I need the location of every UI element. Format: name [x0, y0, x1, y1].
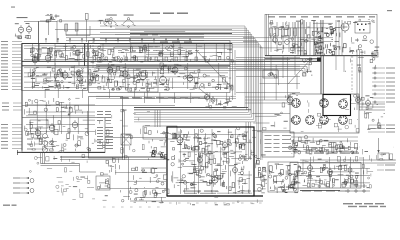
wire: B+ bus (dark): [22, 60, 321, 62]
parts list table rows (lower): [97, 127, 103, 128]
component cluster: first IF amp parts: [30, 67, 61, 90]
block outline: power supply chassis box: [290, 163, 361, 189]
tube V10: [122, 69, 128, 79]
wire with arrow: [378, 138, 380, 152]
tube V26: [212, 175, 218, 185]
component cluster: lower-left audio parts: [56, 176, 95, 200]
block outline: RF coil box: [55, 51, 79, 67]
wire crossers through gutter: [45, 89, 147, 98]
tube V11: [140, 71, 147, 82]
block outline: RF amplifier stage box: [22, 44, 88, 91]
wire drops in top band: [33, 44, 225, 61]
label: page number: [3, 205, 10, 206]
wire runs bottom center: [100, 168, 166, 197]
tube V22: [72, 120, 78, 130]
wire: [55, 46, 160, 48]
wire (dark): [60, 156, 167, 158]
component cluster: below converter box: [206, 96, 237, 108]
wire: top bus: [57, 20, 160, 22]
wire staircase bundle into vertical bus: [100, 26, 262, 160]
block outline: audio output box: [22, 118, 105, 153]
component cluster: terminal strip: [364, 111, 385, 130]
wire: [48, 21, 50, 35]
block outline: audio output module (heavy border): [167, 127, 254, 196]
tube V16: [211, 96, 215, 104]
component cluster: RF box interior extra: [28, 71, 86, 88]
tube V27: [233, 166, 238, 175]
wire: [80, 171, 97, 173]
wire runs in main field: [24, 68, 228, 88]
pin labels: left margin connector P2: [2, 103, 22, 104]
terminal stubs on AVC bus: [45, 38, 190, 42]
wire: [22, 105, 175, 107]
wire: [17, 150, 19, 155]
component cluster: S-meter circuit: [201, 74, 234, 90]
component cluster: module dense extra: [172, 132, 250, 192]
tube V9: [107, 65, 113, 75]
block outline: oscillator/BFO unit: [265, 14, 377, 55]
label row below upper bus: [140, 34, 148, 35]
wire drops mid-right web: [265, 57, 297, 100]
tube V14: [187, 73, 193, 83]
component cluster: vertical bus taps lower: [235, 127, 266, 161]
component cluster: under-chassis parts: [288, 136, 360, 155]
wire: [24, 20, 57, 22]
jack J2 contact: [43, 148, 48, 153]
wire bracket: [66, 35, 90, 37]
component cluster: antenna relay parts: [354, 94, 379, 110]
component cluster: audio takeoff: [100, 157, 119, 175]
component cluster: audio output stage: [24, 98, 82, 115]
component cluster: switch wiring: [148, 139, 169, 160]
labels under module: [183, 191, 201, 192]
wire bus down: [40, 152, 42, 163]
transformer T1 windings (dark verticals): [301, 20, 324, 56]
connector pin symbols: [374, 67, 376, 103]
tube V28: [308, 164, 313, 173]
component cluster: right lower corner parts: [359, 147, 394, 160]
tube V12: [160, 75, 167, 86]
crystal Y1 terminals: [357, 24, 367, 31]
wire drops in main field: [33, 63, 219, 89]
wire (dark vertical): [84, 43, 86, 66]
resistor R6: [27, 36, 31, 39]
wire: filament bus (dark): [22, 65, 230, 67]
terminal rows: rear panel connections: [13, 178, 28, 179]
label Y2: [106, 15, 117, 16]
tube V29: [328, 168, 333, 177]
wire: [234, 50, 236, 95]
tube socket X4: [292, 116, 301, 125]
wire: [40, 20, 49, 22]
block outline: power supply filter: [268, 162, 298, 192]
component cluster: module parts middle: [171, 150, 248, 170]
tube V13: [172, 65, 178, 75]
wire: [105, 137, 167, 139]
tube socket X6: [320, 116, 329, 125]
wires into audio area: [154, 110, 156, 127]
wire drops power section: [303, 157, 363, 188]
wire runs across top box: [66, 31, 204, 40]
tube V20: [35, 128, 41, 138]
tube V24: [198, 156, 203, 165]
wire (diagonal): [196, 50, 232, 88]
capacitor C10 (trimmer): [273, 38, 278, 43]
tube V18: [356, 96, 361, 105]
wire drops below oscillator box: [271, 56, 344, 78]
component cluster: power top strip: [303, 156, 358, 162]
resistor R2 (vertical): [65, 24, 68, 31]
capacitor C30 (dark block): [317, 58, 321, 62]
node mark top right corner: [387, 10, 392, 11]
fuse F1 and pilot lamps: [345, 190, 370, 192]
block outline: crystal filter: [355, 22, 370, 34]
resistor R5: [18, 36, 22, 39]
wire (dashed vertical shield): [92, 38, 94, 70]
tube V23: [177, 135, 183, 145]
tube V17: [287, 95, 293, 105]
label Y3: [124, 15, 134, 16]
component cluster: V1 V2 cathode parts: [15, 34, 29, 38]
label: drawing number line 1: [343, 203, 353, 204]
wire drops audio output: [30, 102, 87, 134]
label: band switch legend: [150, 13, 160, 14]
labels right of module bottom: [241, 191, 251, 192]
wire bus horizontal: [41, 163, 80, 165]
component cluster: oscillator top row parts: [270, 19, 375, 25]
wire (dark): [300, 190, 340, 192]
component cluster: module parts upper: [170, 129, 250, 150]
wire: nested box ends: [96, 65, 309, 77]
label row above IF bundle: [120, 97, 128, 98]
tube V5: [32, 55, 38, 65]
wire: [359, 103, 385, 105]
component cluster: sidetone parts: [130, 167, 147, 200]
component cluster: coil L1: [98, 19, 112, 24]
capacitor C12 (trimmer): [294, 44, 298, 48]
wire: box bottom (dark): [265, 55, 377, 57]
wire: [300, 159, 396, 161]
small box: fuse holder: [378, 153, 389, 160]
tube V7: [62, 70, 68, 80]
wire: AVC bus (dark): [22, 42, 232, 44]
wire runs in oscillator box: [243, 23, 333, 48]
component cluster: audio preamp parts: [102, 64, 130, 90]
component cluster: power section lower: [305, 179, 356, 188]
jack J2 contact: [43, 134, 48, 139]
label: drawing number line 2: [348, 206, 357, 207]
component cluster: left-lower extra: [24, 125, 56, 150]
wire: [335, 20, 337, 55]
relay K1 (box with cross): [121, 134, 131, 145]
label V1: [15, 23, 19, 24]
component cluster: under chassis dense: [294, 141, 358, 154]
block outline: voltage chart table: [262, 132, 294, 157]
wire runs in module: [171, 134, 252, 193]
label row: chassis legend: [314, 153, 324, 154]
component cluster: detector / noise limiter: [160, 63, 201, 90]
component cluster: below module: [177, 198, 258, 205]
label above V1 V2: [17, 17, 28, 18]
component cluster: dark contact marks: [152, 151, 175, 159]
wires into chassis view: [245, 96, 290, 98]
wire (dashed AGC): [118, 50, 199, 52]
wire bus right margin vertical: [356, 50, 358, 110]
pin labels: right margin AC input: [377, 160, 395, 161]
wire (diagonal): [288, 58, 312, 84]
tube V8: [77, 73, 83, 83]
wires mid-right web: [236, 66, 300, 93]
pin labels: right margin power leads: [368, 125, 395, 126]
component cluster: function switch contacts: [149, 130, 177, 138]
tube V31 (oscillator): [341, 21, 349, 33]
wires toward chassis: [252, 114, 290, 131]
wire: [130, 200, 263, 202]
tube V21: [49, 123, 55, 133]
pin labels: left margin connector P3: [1, 124, 22, 125]
wire: [236, 59, 290, 61]
block outline: AF driver: [128, 68, 158, 92]
wire (dashed shield): [351, 60, 353, 92]
wire (dashed, stepped up): [160, 202, 262, 204]
wire (dark pair): [134, 107, 248, 109]
label row above IF bundle: [120, 98, 129, 99]
wire: [86, 20, 88, 43]
component cluster: second IF amp parts: [59, 66, 101, 89]
block outline: chassis top view: [290, 94, 359, 133]
resistor R3 (vertical): [75, 23, 78, 31]
component cluster: left of module: [150, 168, 169, 195]
component cluster: antenna input parts C1 R1: [45, 14, 61, 22]
component cluster: IF row: [117, 45, 163, 62]
component cluster: module parts lower: [172, 170, 250, 193]
pin labels: left margin connector P1: [1, 41, 22, 42]
block outline: phone jack: [96, 176, 110, 190]
parts list table rows: [97, 111, 103, 112]
wire (dark vertical): [38, 21, 40, 61]
tube V1 (triode): [18, 25, 23, 34]
tube socket X3: [339, 100, 348, 109]
wire drops in module: [173, 129, 249, 194]
block outline: control stage box: [89, 97, 123, 159]
tube socket X2: [320, 99, 329, 108]
component cluster: oscillator left half extra parts: [271, 22, 296, 53]
wire runs under chassis: [291, 137, 358, 151]
component cluster: RF amp row: [30, 45, 84, 60]
wire pair vertical: [122, 110, 124, 160]
component cluster: relay parts: [345, 57, 375, 72]
resistor R11 (vertical): [276, 22, 278, 52]
tube V2 (triode): [26, 25, 31, 34]
wire: left frame (dark): [21, 43, 23, 150]
component cluster: power wiring: [294, 164, 359, 187]
wire: [60, 159, 167, 161]
wire: second bus: [55, 29, 232, 31]
tube V6: [45, 53, 51, 63]
component cluster: right of transformer: [333, 24, 346, 52]
tube socket X5: [306, 116, 315, 125]
crystal Y2 with leads: [104, 18, 118, 28]
tube V25: [223, 141, 228, 150]
small box: antenna terminal: [372, 52, 378, 57]
wire drops in oscillator box: [293, 22, 298, 54]
block outline: output transformer: [30, 120, 48, 128]
wire: [236, 57, 300, 59]
wire: box bottom step (dark): [265, 58, 321, 60]
resistor R10 (vertical): [270, 22, 272, 52]
resistor R14 (vertical): [294, 22, 296, 52]
wire runs power section: [300, 168, 370, 186]
resistor R13 (vertical): [288, 22, 290, 52]
component cluster: chassis right column: [263, 112, 288, 130]
crystal Y3 with leads: [122, 18, 136, 28]
wire (dark upper): [130, 33, 232, 35]
labels inside converter box: [160, 42, 168, 43]
tube V15: [205, 93, 210, 102]
tube V30: [348, 166, 352, 174]
terminal stubs on B+ bus: [105, 57, 198, 61]
component cluster: mixer parts: [314, 26, 336, 55]
tube socket X1: [292, 99, 301, 108]
component cluster: center-left lower extra: [106, 109, 150, 158]
wire (dark): [17, 151, 105, 153]
wire runs lower mid: [96, 96, 236, 98]
component cluster: detector row: [163, 45, 234, 62]
pin labels: right margin connector J1: [372, 68, 395, 69]
component cluster: left-center gap parts: [58, 148, 91, 172]
block outline: shield can (heavy border): [323, 95, 351, 116]
component cluster: right terminal column: [362, 159, 373, 189]
component cluster: rectifier parts: [255, 160, 267, 191]
component cluster: power supply extra: [258, 164, 298, 193]
component cluster: mixer row: [86, 45, 116, 63]
component cluster: lower-left wires: [30, 156, 58, 172]
wire runs in top band: [24, 46, 232, 60]
wire: [79, 164, 81, 173]
block outline: function switch: [143, 126, 177, 139]
terminal rows: rear panel arrows: [26, 177, 34, 194]
table rows: voltage chart: [265, 135, 272, 136]
wire: module bottom rail (dark): [167, 195, 263, 197]
component cluster: meter amp: [282, 93, 299, 107]
capacitor C11 (trimmer): [285, 40, 290, 45]
wire (diagonal): [200, 89, 214, 101]
component cluster: audio output box interior: [25, 120, 106, 151]
component cluster: bottom center parts: [103, 190, 165, 203]
component cluster: voltage regulator parts: [303, 58, 314, 76]
component cluster: phone jack contacts: [98, 179, 110, 189]
wire: [232, 43, 234, 100]
wire: [100, 37, 152, 39]
wire bus continuation down: [245, 122, 247, 160]
wire: dark bus to chassis: [320, 56, 322, 94]
node A (top-left reference mark): [11, 7, 15, 8]
block outline: converter stage box: [89, 41, 231, 93]
labels: oscillator section titles: [268, 16, 275, 17]
component cluster: T1 section parts: [297, 27, 323, 54]
component cluster: power supply parts: [269, 164, 298, 191]
wire drops from converter box to bundle: [144, 93, 226, 104]
wire: [56, 21, 58, 43]
label row below power box: [302, 191, 311, 192]
component cluster: AF driver parts: [130, 69, 157, 91]
jack J2 contact: [43, 141, 48, 146]
component cluster: filter matching parts: [349, 36, 379, 55]
wire: [128, 157, 130, 200]
tube socket X7: [339, 116, 348, 125]
wire (dashed chassis ground run): [103, 206, 160, 208]
terminal rows: speaker connections: [27, 134, 43, 135]
component cluster: calibrator: [263, 70, 278, 78]
wire runs audio output: [26, 105, 95, 131]
component cluster: chassis wiring: [291, 99, 359, 133]
resistor R12 (vertical): [282, 22, 284, 52]
resistor R4 (vertical): [85, 14, 88, 20]
label V2: [26, 23, 30, 24]
tube V19: [366, 99, 371, 108]
wire bus vertical: [266, 14, 268, 55]
